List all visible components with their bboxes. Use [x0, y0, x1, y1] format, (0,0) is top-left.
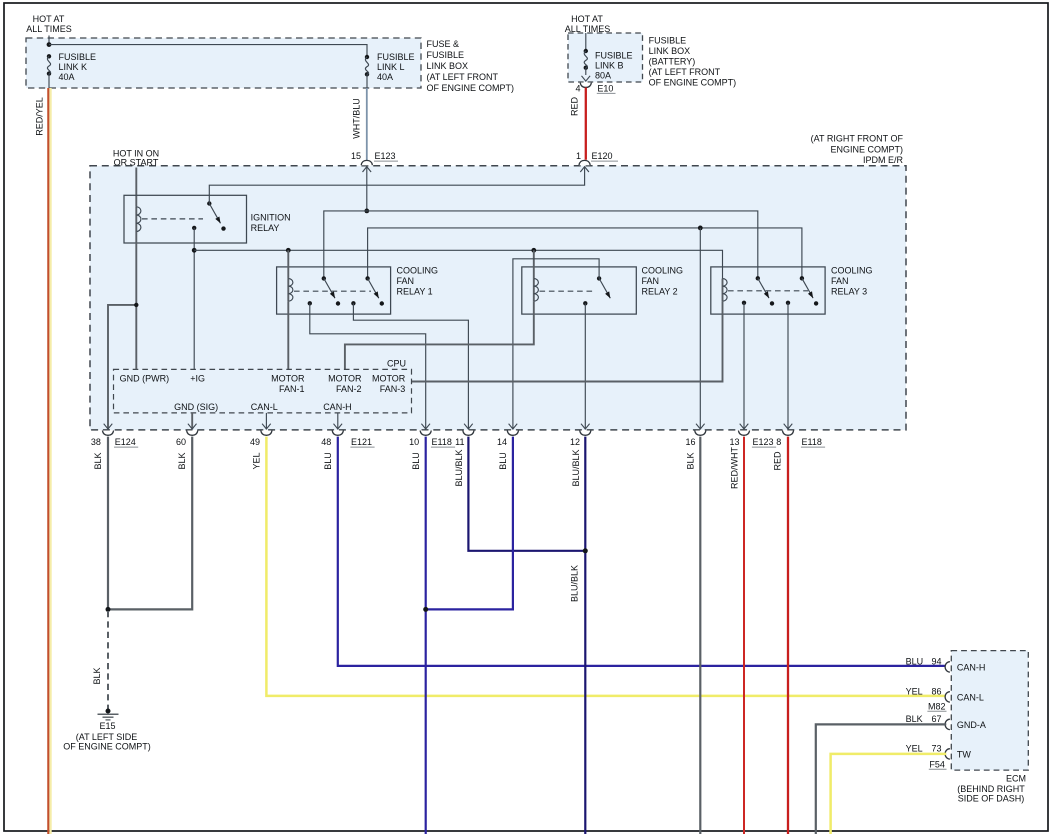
label HOT AT ALL TIMES (right) [565, 14, 611, 34]
relay2 dashed link [540, 290, 596, 292]
svg-text:E124: E124 [115, 437, 136, 447]
wire BLK pin 16 down [699, 437, 701, 834]
wire BLU pin 10 down [425, 437, 427, 834]
label HOT IN ON OR START [113, 149, 159, 168]
svg-text:FAN: FAN [642, 276, 660, 286]
connector pin 38 (IPDM bottom) [102, 424, 113, 436]
svg-text:RELAY: RELAY [251, 223, 280, 233]
label BLU/BLK (pin 11) [454, 449, 464, 486]
connector pin 11 (IPDM bottom) [463, 424, 474, 436]
label FUSIBLE LINK B 80A [595, 50, 633, 80]
ignition relay box [124, 195, 247, 243]
relay2 coil [534, 279, 539, 315]
IPDM E/R box [90, 166, 906, 430]
ignition relay coil [136, 207, 141, 243]
ground terminal E15 [98, 709, 119, 720]
svg-text:13: 13 [729, 437, 739, 447]
connector E123 (IPDM top) [361, 160, 372, 172]
svg-text:F54: F54 [929, 759, 945, 769]
wire BLK dashed to E15 [107, 611, 109, 710]
node relay1 coil tap [286, 248, 291, 253]
svg-text:BLK: BLK [93, 452, 103, 469]
svg-text:4: 4 [575, 84, 580, 94]
svg-text:10: 10 [409, 437, 419, 447]
label BLU 94 CAN-H [906, 656, 986, 672]
svg-text:YEL: YEL [906, 743, 923, 753]
label 15 / E123 [351, 151, 398, 161]
svg-text:RED: RED [570, 97, 580, 117]
label BLU (pin 48) [323, 452, 333, 470]
svg-text:E121: E121 [351, 437, 372, 447]
wire BLU pin 14 down and left [426, 437, 513, 610]
label MOTOR FAN-1 [271, 374, 305, 395]
svg-text:WHT/BLU: WHT/BLU [352, 98, 362, 139]
ignition relay coil dashed link [142, 218, 203, 220]
wire hot feed into fuse box [48, 36, 50, 45]
svg-text:E15: E15 [99, 721, 115, 731]
svg-text:60: 60 [176, 437, 186, 447]
label BLU (pin 14) [498, 452, 508, 470]
svg-text:BLU: BLU [411, 452, 421, 470]
wire E120 to ignition relay common [209, 167, 584, 204]
svg-text:FAN: FAN [397, 276, 415, 286]
svg-text:11: 11 [455, 437, 464, 447]
svg-text:49: 49 [250, 437, 260, 447]
label +IG [190, 374, 205, 384]
svg-text:67: 67 [931, 714, 941, 724]
svg-text:BLU/BLK: BLU/BLK [454, 449, 464, 486]
relay3 right contact (to pin 8) [786, 301, 790, 305]
svg-text:(BATTERY): (BATTERY) [649, 56, 696, 66]
node E123 junction [364, 209, 369, 214]
svg-text:GND (PWR): GND (PWR) [120, 374, 170, 384]
svg-text:RELAY 2: RELAY 2 [642, 287, 678, 297]
relay1 coil feed [287, 250, 289, 278]
label FUSIBLE LINK K 40A [59, 52, 97, 82]
svg-text:FUSIBLE: FUSIBLE [427, 50, 465, 60]
svg-text:86: 86 [931, 686, 941, 696]
connector E120 (IPDM top) [579, 160, 590, 172]
wire pin 16 drop (BLK inside IPDM) [699, 228, 701, 429]
wire relay3 left contact to pin 13 [743, 303, 745, 430]
node pin10/14 junction [423, 607, 428, 612]
svg-text:TW: TW [957, 749, 971, 759]
label BLU/BLK (pin 12) [571, 449, 581, 486]
wire ignition relay output to +IG [193, 228, 195, 370]
wire RED/YEL (fusible link K to bottom of page) [48, 88, 50, 834]
fusible link K [47, 54, 51, 76]
svg-text:RELAY 3: RELAY 3 [831, 287, 867, 297]
svg-text:(AT LEFT FRONT: (AT LEFT FRONT [427, 72, 499, 82]
node GND(PWR) branch [134, 303, 138, 307]
label GND (PWR) [120, 374, 170, 384]
svg-text:E120: E120 [592, 151, 613, 161]
relay3 right switch [800, 276, 819, 306]
wire YEL pin 49 (CAN-L) to ECM [266, 437, 946, 696]
label BLK (pin 60) [177, 452, 187, 469]
wire relay2 switch common to pin 14 [513, 259, 599, 430]
connector pin 12 (IPDM bottom) [580, 424, 591, 436]
connector pin 67 (ECM GND-A) [945, 719, 950, 729]
connector pin 60 (IPDM bottom) [187, 424, 198, 436]
svg-text:BLK: BLK [92, 667, 102, 684]
svg-text:RELAY 1: RELAY 1 [397, 287, 433, 297]
svg-text:FUSIBLE: FUSIBLE [649, 35, 687, 45]
wire link K to box edge [48, 74, 50, 88]
label IGNITION RELAY [251, 213, 291, 234]
svg-text:12: 12 [570, 437, 580, 447]
fusible link box battery [568, 33, 643, 82]
svg-text:FUSIBLE: FUSIBLE [59, 52, 97, 62]
fusible link L [365, 55, 369, 77]
wire feed into link B [585, 33, 587, 51]
wire relay1 switch B to relay3 right switch (net with pin 16) [368, 228, 802, 279]
svg-text:ALL TIMES: ALL TIMES [565, 24, 611, 34]
label HOT AT ALL TIMES (left) [26, 14, 72, 34]
svg-text:80A: 80A [595, 71, 611, 81]
node ground junction [106, 607, 111, 612]
svg-text:COOLING: COOLING [642, 266, 684, 276]
label COOLING FAN RELAY 1 [397, 266, 439, 297]
svg-text:HOT AT: HOT AT [33, 14, 65, 24]
wire RED/WHT pin 13 down [743, 437, 745, 834]
label 4 / E10 [575, 84, 615, 94]
svg-text:FAN-3: FAN-3 [380, 384, 406, 394]
label MOTOR FAN-3 [372, 374, 406, 395]
connector pin 10 (IPDM bottom) [420, 424, 431, 436]
svg-text:FAN: FAN [831, 276, 849, 286]
svg-text:BLK: BLK [686, 452, 696, 469]
svg-text:CAN-H: CAN-H [323, 402, 352, 412]
svg-text:ENGINE COMPT): ENGINE COMPT) [830, 144, 903, 154]
label MOTOR FAN-2 [328, 374, 362, 395]
svg-text:14: 14 [497, 437, 507, 447]
label RED/YEL [35, 97, 45, 136]
fuse & fusible link box (left front engine compt) [26, 38, 421, 88]
svg-text:CAN-L: CAN-L [251, 402, 278, 412]
label CAN-H [323, 402, 352, 412]
label CAN-L [251, 402, 278, 412]
wire RED pin 8 down [787, 437, 789, 834]
svg-text:+IG: +IG [190, 374, 205, 384]
wire BLU/BLK pin 12 down [584, 437, 586, 834]
label COOLING FAN RELAY 2 [642, 266, 684, 297]
svg-text:OF ENGINE COMPT): OF ENGINE COMPT) [427, 83, 515, 93]
label BLK (pin 38) [93, 452, 103, 469]
wire relay coil supply bus [194, 250, 722, 278]
cooling fan relay 1 box [277, 267, 391, 314]
label RED [570, 97, 580, 117]
ignition relay switch [207, 201, 226, 231]
label BLU (pin 10) [411, 452, 421, 470]
wire WHT/BLU (fusible link L to E123) [366, 88, 368, 160]
svg-text:SIDE OF DASH): SIDE OF DASH) [958, 793, 1025, 803]
relay1 switch B [365, 276, 384, 306]
svg-text:BLU/BLK: BLU/BLK [571, 449, 581, 486]
relay1 contact A (to pin 10) [308, 301, 312, 305]
connector pin 73 (ECM TW) [945, 749, 950, 759]
svg-text:BLK: BLK [906, 714, 923, 724]
wire to fusible link L [49, 45, 367, 57]
svg-text:FAN-2: FAN-2 [336, 384, 362, 394]
svg-text:GND-A: GND-A [957, 720, 986, 730]
wire relay3 right contact to pin 8 [787, 303, 789, 430]
svg-text:BLU: BLU [323, 452, 333, 470]
svg-text:(AT RIGHT FRONT OF: (AT RIGHT FRONT OF [811, 133, 904, 143]
svg-text:MOTOR: MOTOR [271, 374, 305, 384]
wire BLK GND-A from bottom [816, 724, 947, 834]
wire YEL TW from bottom [831, 754, 947, 834]
wire link L to box edge [366, 74, 368, 88]
wire relay1 contact A to pin 10 [310, 303, 426, 429]
svg-text:RED/WHT: RED/WHT [730, 447, 740, 489]
connector pin 94 (ECM CAN-H) [945, 662, 950, 672]
relay1 contact B (to pin 11) [351, 301, 355, 305]
svg-text:LINK K: LINK K [59, 62, 88, 72]
CPU box [114, 369, 412, 413]
label F54 [929, 759, 947, 769]
svg-text:1: 1 [576, 151, 581, 161]
wire relay2 contact to pin 12 [584, 303, 586, 429]
label YEL 86 CAN-L [906, 686, 984, 702]
labels pin numbers and connectors E124 E121 E118 E123 E118 [91, 437, 825, 447]
label E15 (AT LEFT SIDE OF ENGINE COMPT) [63, 721, 151, 752]
svg-text:IGNITION: IGNITION [251, 213, 291, 223]
svg-text:HOT AT: HOT AT [571, 14, 603, 24]
label 1 / E120 [576, 151, 618, 161]
relay2 switch [597, 276, 610, 298]
svg-text:40A: 40A [377, 72, 393, 82]
svg-text:COOLING: COOLING [831, 266, 873, 276]
connector pin 86 (ECM CAN-L) [945, 692, 950, 702]
cooling fan relay 3 box [711, 267, 825, 314]
label RED (pin 8) [773, 451, 783, 471]
svg-text:M82: M82 [928, 701, 946, 711]
label WHT/BLU [352, 98, 362, 139]
svg-text:OF ENGINE COMPT): OF ENGINE COMPT) [649, 77, 737, 87]
svg-text:ECM: ECM [1006, 774, 1026, 784]
wire BLK pin 60 down and left [108, 437, 192, 610]
svg-text:BLU: BLU [906, 656, 924, 666]
svg-text:15: 15 [351, 151, 361, 161]
wire relay3 coil to CPU MOTOR FAN-3 [412, 314, 723, 381]
svg-text:YEL: YEL [906, 686, 923, 696]
wire GND(SIG) to pin 60 [191, 413, 193, 429]
svg-text:E123: E123 [753, 437, 774, 447]
label BLK (pin 16) [686, 452, 696, 469]
ignition relay output contact [192, 226, 196, 230]
wire RED (E10 to E120) [585, 88, 587, 160]
svg-text:IPDM E/R: IPDM E/R [863, 155, 904, 165]
svg-text:CPU: CPU [387, 358, 406, 368]
svg-text:LINK L: LINK L [377, 62, 405, 72]
fusible link B [584, 49, 588, 70]
wire link B to box edge [585, 68, 587, 75]
wire BLU pin 48 (CAN-H) to ECM [338, 437, 947, 666]
svg-text:38: 38 [91, 437, 101, 447]
svg-text:FUSIBLE: FUSIBLE [377, 52, 415, 62]
svg-text:OR START: OR START [114, 158, 159, 168]
wire relay1 contact B to pin 11 [353, 303, 468, 429]
node junction fuse box feed [47, 42, 52, 47]
svg-text:LINK B: LINK B [595, 61, 624, 71]
connector pin 49 (IPDM bottom) [261, 424, 272, 436]
svg-text:E10: E10 [597, 84, 613, 94]
svg-text:MOTOR: MOTOR [328, 374, 362, 384]
connector pin 16 (IPDM bottom) [695, 424, 706, 436]
label COOLING FAN RELAY 3 [831, 266, 873, 297]
connector E10 exit [580, 76, 591, 88]
relay1 switch A [322, 276, 341, 306]
label M82 [927, 701, 946, 711]
svg-text:COOLING: COOLING [397, 266, 439, 276]
svg-text:48: 48 [321, 437, 331, 447]
svg-text:YEL: YEL [252, 452, 262, 469]
wire relay2 coil to CPU MOTOR FAN-2 [345, 314, 534, 369]
wire relay1 coil to CPU MOTOR FAN-1 [287, 314, 289, 369]
svg-text:MOTOR: MOTOR [372, 374, 406, 384]
wire E123 into IPDM [366, 167, 368, 211]
connector pin 48 (IPDM bottom) [332, 424, 343, 436]
relay3 left switch [756, 276, 775, 306]
svg-text:(AT LEFT FRONT: (AT LEFT FRONT [649, 67, 721, 77]
svg-text:73: 73 [931, 743, 941, 753]
node relay2 coil tap [531, 248, 536, 253]
svg-text:16: 16 [685, 437, 695, 447]
cooling fan relay 2 box [522, 267, 637, 314]
svg-text:E118: E118 [802, 437, 822, 447]
label RED/WHT (pin 13) [730, 447, 740, 489]
svg-text:FUSE &: FUSE & [427, 39, 460, 49]
label FUSE & FUSIBLE LINK BOX (AT LEFT FRONT OF ENGINE COMPT) [427, 39, 515, 93]
relay3 dashed link [728, 290, 808, 292]
node +IG bus junction [192, 248, 197, 253]
svg-text:(BEHIND RIGHT: (BEHIND RIGHT [957, 784, 1025, 794]
wire hot-in-on feed to ignition relay coil [135, 168, 137, 207]
svg-text:CAN-H: CAN-H [957, 662, 986, 672]
ECM box [951, 651, 1028, 771]
svg-text:RED/YEL: RED/YEL [35, 97, 45, 136]
relay3 coil [723, 279, 728, 315]
relay1 dashed link [294, 290, 371, 292]
connector pin 14 (IPDM bottom) [507, 424, 518, 436]
label BLU/BLK (joined 11+12) [570, 565, 580, 602]
svg-text:CAN-L: CAN-L [957, 693, 984, 703]
label FUSIBLE LINK BOX (BATTERY) (AT LEFT FRONT OF ENGINE COMPT) [649, 35, 737, 87]
svg-text:BLU/BLK: BLU/BLK [570, 565, 580, 602]
node pin16 tap [698, 226, 703, 231]
svg-text:FAN-1: FAN-1 [279, 384, 305, 394]
relay2 coil feed [533, 250, 535, 278]
svg-text:ALL TIMES: ALL TIMES [26, 24, 72, 34]
svg-text:FUSIBLE: FUSIBLE [595, 50, 633, 60]
svg-text:LINK BOX: LINK BOX [649, 46, 691, 56]
label (AT RIGHT FRONT OF ENGINE COMPT) IPDM E/R [811, 133, 904, 165]
label FUSIBLE LINK L 40A [377, 52, 415, 82]
label YEL (pin 49) [252, 452, 262, 469]
label GND (SIG) [174, 402, 218, 412]
label CPU [387, 358, 406, 368]
svg-text:E123: E123 [375, 151, 396, 161]
wire CAN-H to pin 48 [337, 413, 339, 429]
label BLK (E15 drop) [92, 667, 102, 684]
relay2 contact (to pin 12) [583, 301, 587, 305]
svg-text:LINK BOX: LINK BOX [427, 61, 469, 71]
wire BLK pin 38 down [107, 437, 109, 610]
svg-text:OF ENGINE COMPT): OF ENGINE COMPT) [63, 741, 151, 751]
svg-text:8: 8 [776, 437, 781, 447]
svg-text:BLK: BLK [177, 452, 187, 469]
svg-text:E118: E118 [432, 437, 452, 447]
node pin11/12 junction [583, 548, 588, 553]
relay1 coil [288, 279, 293, 315]
svg-text:94: 94 [931, 656, 941, 666]
svg-text:GND (SIG): GND (SIG) [174, 402, 218, 412]
connector pin 13 (IPDM bottom) [738, 424, 749, 436]
relay3 left contact (to pin 13) [742, 301, 746, 305]
label YEL 73 TW [906, 743, 972, 759]
connector pin 8 (IPDM bottom) [782, 424, 793, 436]
label BLK 67 GND-A [906, 714, 986, 730]
wire BLU/BLK pin 11 down and right [468, 437, 585, 551]
wire E123 junction to relay1 switch A and relay3 left switch [324, 211, 758, 279]
svg-text:RED: RED [773, 451, 783, 471]
svg-text:BLU: BLU [498, 452, 508, 470]
svg-text:40A: 40A [59, 72, 75, 82]
label ECM (BEHIND RIGHT SIDE OF DASH) [957, 774, 1026, 804]
wire CAN-L to pin 49 [265, 413, 267, 429]
wire ignition coil to GND(PWR) / pin 38 branch [108, 243, 136, 429]
